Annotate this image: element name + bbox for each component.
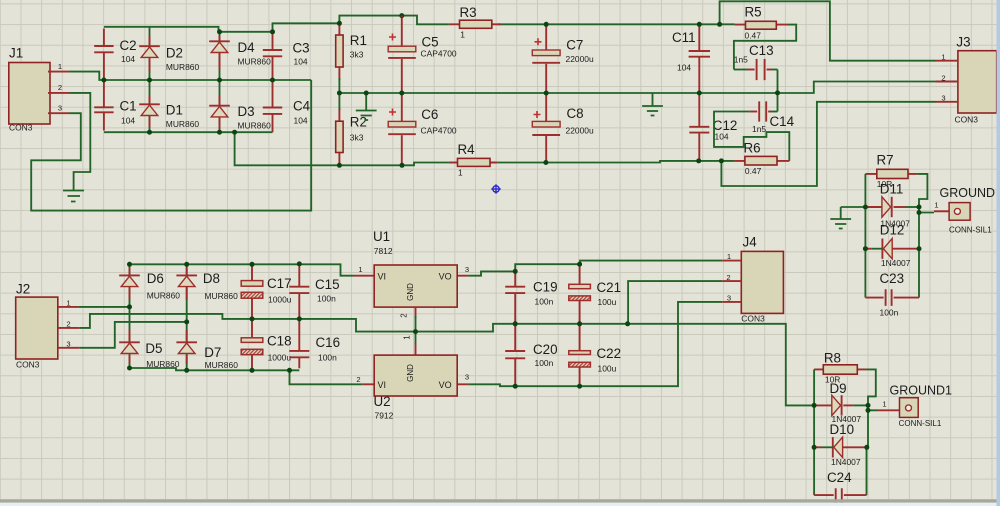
wire J1 pin3 loop to mid node rail (31, 80, 311, 211)
ground at C7/C8 mid rail (652, 93, 654, 106)
svg-text:J1: J1 (9, 46, 23, 61)
wire D9-D10 left vertical (813, 405, 815, 447)
capacitor C24 (813, 447, 815, 495)
svg-text:R3: R3 (460, 5, 477, 20)
svg-text:D1: D1 (166, 103, 183, 118)
svg-text:MUR860: MUR860 (238, 57, 272, 67)
svg-text:C20: C20 (533, 342, 558, 357)
svg-text:C4: C4 (293, 99, 311, 114)
capacitor C16 (298, 321, 300, 351)
terminal GROUND1 (878, 409, 900, 411)
wire J1 pin2 to ground (70, 93, 90, 190)
wire R7 right down to D11 cathode (918, 174, 928, 207)
origin marker (491, 184, 501, 194)
wire D11-D12 left vertical (864, 207, 866, 249)
wire J2 pin1 to D6/D5 node (78, 306, 129, 308)
regulator U1 7812 (353, 275, 468, 277)
capacitor C5 (389, 34, 396, 41)
svg-text:MUR860: MUR860 (238, 121, 272, 131)
svg-text:J2: J2 (16, 281, 30, 296)
diode D9 (814, 404, 832, 406)
diode D1 (149, 80, 151, 132)
resistor R7 (865, 173, 918, 175)
pin 2 of J3 (936, 81, 958, 83)
svg-text:3: 3 (58, 104, 62, 113)
svg-text:R4: R4 (458, 142, 476, 157)
svg-text:3: 3 (727, 294, 731, 303)
svg-text:C21: C21 (597, 280, 622, 295)
svg-text:2: 2 (356, 375, 360, 384)
svg-text:1N4007: 1N4007 (881, 258, 911, 268)
wire D9-D10 right vertical (867, 410, 869, 447)
svg-text:C23: C23 (880, 271, 905, 286)
connector J2 (16, 297, 58, 359)
wire J4 pin2 from mid rail (628, 281, 722, 324)
svg-text:100n: 100n (318, 352, 337, 362)
ground at R2 node (365, 93, 367, 111)
wire branch to U2 VI (290, 370, 363, 384)
diode D5 (129, 307, 131, 368)
capacitor C7 (535, 38, 542, 45)
svg-text:R6: R6 (744, 140, 761, 155)
junction dots R8 block (812, 403, 817, 408)
wire D11 cathode to GROUND terminal (919, 207, 934, 213)
svg-text:22000u: 22000u (566, 54, 594, 64)
svg-text:100u: 100u (598, 363, 617, 373)
svg-text:104: 104 (294, 56, 308, 66)
pin 3 of J3 (936, 101, 958, 103)
svg-text:1: 1 (358, 265, 362, 274)
wire R7 left down to D11 (864, 174, 866, 207)
wire R8 left down to D9 (813, 369, 815, 405)
capacitor C8 (534, 111, 541, 118)
resistor R4 (449, 162, 497, 164)
svg-text:MUR860: MUR860 (205, 291, 239, 301)
svg-text:1: 1 (66, 299, 70, 308)
svg-text:3: 3 (465, 373, 469, 382)
svg-text:R1: R1 (350, 33, 367, 48)
svg-text:CAP4700: CAP4700 (421, 125, 457, 135)
svg-text:C16: C16 (316, 335, 341, 350)
svg-text:R7: R7 (877, 152, 894, 167)
svg-text:100n: 100n (535, 358, 554, 368)
svg-text:1n5: 1n5 (734, 55, 748, 65)
svg-text:7912: 7912 (375, 410, 394, 420)
svg-text:C7: C7 (566, 37, 583, 52)
wire C14 left loop to R6 right (714, 112, 789, 161)
svg-text:C18: C18 (267, 333, 292, 348)
diode D2 (149, 27, 151, 80)
svg-text:VI: VI (378, 380, 387, 390)
diode D12 (865, 248, 871, 250)
svg-text:D6: D6 (147, 271, 164, 286)
capacitor C11 (698, 26, 700, 51)
svg-text:R2: R2 (350, 115, 367, 130)
svg-text:1: 1 (458, 168, 463, 178)
capacitor C14 (749, 111, 757, 113)
svg-text:1000u: 1000u (268, 353, 292, 363)
resistor R6 (734, 160, 789, 162)
wire J2 pin3 to D8/D7 node (79, 322, 187, 348)
pin 2 of J1 (48, 92, 70, 94)
svg-text:MUR860: MUR860 (146, 359, 180, 369)
resistor R3 (449, 23, 501, 25)
wire mid rail (R1-R2/C5/C7/C11 mid, to J3 pin 2) (339, 82, 936, 94)
capacitor C1 (103, 82, 105, 107)
junction dots bottom section (127, 262, 132, 267)
wire to J3 pin 1 (720, 1, 936, 60)
pin 1 of J1 (48, 71, 70, 73)
diode D4 (219, 32, 221, 80)
svg-text:C1: C1 (120, 99, 137, 114)
svg-text:D2: D2 (166, 46, 183, 61)
svg-text:3: 3 (465, 265, 469, 274)
capacitor C15 (298, 266, 300, 287)
svg-text:0.47: 0.47 (745, 166, 762, 176)
svg-text:D4: D4 (238, 40, 256, 55)
ground under J1 (63, 191, 84, 202)
svg-text:0.47: 0.47 (745, 30, 762, 40)
svg-text:1: 1 (934, 200, 938, 209)
svg-text:R8: R8 (824, 351, 841, 366)
junction dots R7 block (863, 205, 868, 210)
svg-text:CAP4700: CAP4700 (421, 48, 457, 58)
svg-text:1: 1 (403, 335, 412, 340)
wire R3 right to C7/C11/R5 (497, 23, 734, 25)
svg-text:2: 2 (726, 273, 730, 282)
svg-text:CON3: CON3 (16, 359, 40, 369)
svg-text:U1: U1 (373, 229, 390, 244)
pin 3 of J2 (58, 347, 79, 349)
svg-text:C15: C15 (315, 277, 340, 292)
svg-text:GROUND: GROUND (940, 186, 996, 200)
svg-text:1000u: 1000u (268, 294, 292, 304)
svg-text:1N4007: 1N4007 (831, 457, 861, 467)
svg-text:1: 1 (460, 29, 465, 39)
svg-text:D8: D8 (203, 271, 220, 286)
svg-text:D11: D11 (880, 181, 904, 196)
svg-text:2: 2 (58, 83, 62, 92)
svg-text:MUR860: MUR860 (166, 62, 200, 72)
svg-text:C11: C11 (672, 30, 696, 45)
svg-text:104: 104 (677, 63, 691, 73)
svg-text:GND: GND (406, 283, 415, 301)
svg-text:C2: C2 (120, 38, 137, 53)
svg-text:C8: C8 (567, 106, 584, 121)
svg-text:C13: C13 (749, 43, 774, 58)
svg-text:VO: VO (439, 380, 452, 390)
svg-text:D3: D3 (238, 104, 255, 119)
svg-text:C22: C22 (597, 346, 622, 361)
svg-text:J3: J3 (956, 35, 970, 50)
capacitor C17 (251, 266, 253, 281)
svg-text:MUR860: MUR860 (205, 360, 239, 370)
diode D11 (865, 206, 882, 208)
capacitor C23 (864, 249, 866, 298)
capacitor C6 (389, 109, 396, 116)
svg-text:CON3: CON3 (741, 314, 765, 324)
capacitor C3 (272, 34, 274, 51)
wire 0V mid rail (J2 pin2 net) (79, 314, 814, 406)
regulator U2 7912 (363, 383, 468, 385)
pin 2 of J2 (58, 327, 79, 329)
capacitor C12 (698, 95, 700, 127)
wire C13/C14 right to mid rail (777, 70, 779, 112)
svg-text:CONN-SIL1: CONN-SIL1 (899, 419, 942, 428)
svg-text:2: 2 (941, 73, 945, 82)
wire J3 pin3 link from R6 rail (721, 102, 936, 186)
diode D3 (219, 80, 221, 132)
wire R8 right down to D9 cathode (867, 369, 876, 405)
svg-text:D7: D7 (204, 345, 221, 360)
regulator U1 ground pin wire (415, 307, 417, 318)
pin 3 of J4 (722, 301, 741, 303)
svg-text:1: 1 (58, 62, 62, 71)
diode D8 (186, 264, 188, 322)
svg-text:D5: D5 (145, 341, 162, 356)
wire top rail to R1/C5/R3 (273, 16, 449, 32)
capacitor C20 (514, 326, 516, 352)
svg-text:MUR860: MUR860 (166, 119, 200, 129)
svg-text:C3: C3 (293, 40, 310, 55)
wire top rail left (C2/D2/D4/C3 tops) (104, 27, 273, 32)
svg-text:CON3: CON3 (9, 123, 33, 133)
svg-text:1: 1 (727, 252, 731, 261)
wire J1 pin1 to mid node rail (70, 72, 311, 80)
svg-text:U2: U2 (374, 394, 391, 409)
capacitor C5 top wire dot stub (401, 16, 403, 17)
svg-text:D9: D9 (830, 381, 847, 396)
capacitor C19 (514, 273, 516, 287)
capacitor C22 (579, 326, 581, 351)
svg-text:3: 3 (941, 94, 945, 103)
svg-text:1: 1 (941, 53, 945, 62)
svg-text:3k3: 3k3 (350, 50, 364, 60)
svg-text:7812: 7812 (374, 246, 393, 256)
wire bottom rail (D5/D7/C18/C16) (130, 368, 300, 370)
wire top rail bottom section (D6/D8/C17/C15 to U1 VI) (130, 264, 354, 275)
svg-text:104: 104 (715, 131, 729, 141)
diode D10 (814, 446, 822, 448)
svg-text:3: 3 (66, 340, 70, 349)
svg-text:GROUND1: GROUND1 (890, 383, 953, 397)
resistor R5 (735, 24, 787, 26)
wire C1/D1/D3 bottom rail (104, 131, 273, 133)
svg-text:C6: C6 (421, 107, 438, 122)
svg-text:1n5: 1n5 (752, 124, 766, 134)
svg-text:3k3: 3k3 (350, 133, 364, 143)
svg-text:104: 104 (121, 54, 135, 64)
terminal GROUND (934, 210, 949, 212)
svg-text:C14: C14 (770, 114, 795, 129)
svg-text:100n: 100n (535, 296, 554, 306)
diode D6 (129, 264, 131, 307)
pin 1 of J3 (936, 60, 958, 62)
connector J3 (958, 51, 997, 113)
capacitor C13 (734, 69, 748, 71)
svg-text:CONN-SIL1: CONN-SIL1 (949, 225, 992, 234)
svg-text:C5: C5 (422, 35, 439, 50)
svg-text:100u: 100u (598, 297, 617, 307)
svg-text:104: 104 (121, 116, 135, 126)
wire D9 to GROUND1 terminal (868, 405, 878, 410)
svg-text:D12: D12 (880, 222, 905, 237)
svg-text:100n: 100n (880, 308, 899, 318)
wire U1 VO to C19/C21 and J4 pin1 (468, 261, 722, 276)
svg-text:2: 2 (400, 313, 409, 318)
svg-text:D10: D10 (830, 422, 855, 437)
pin 1 of J2 (58, 306, 79, 308)
svg-text:100n: 100n (317, 293, 336, 303)
svg-text:J4: J4 (743, 235, 758, 250)
svg-text:22000u: 22000u (566, 125, 594, 135)
capacitor C2 (103, 29, 105, 47)
wire D11-D12 right vertical (918, 213, 920, 249)
svg-text:C24: C24 (827, 470, 852, 485)
svg-text:R5: R5 (745, 5, 762, 20)
resistor R2 (338, 108, 340, 163)
svg-text:CON3: CON3 (955, 114, 979, 124)
svg-text:GND: GND (406, 364, 415, 382)
connector J4 (741, 251, 783, 313)
ground at D11 anode (841, 206, 866, 208)
resistor R1 (338, 25, 340, 80)
svg-text:1: 1 (882, 399, 886, 408)
capacitor C21 (579, 266, 581, 285)
wire R5 right loop to C13 (734, 25, 796, 70)
wire U2 VO rail to C20/C22 and J4 pin3 (468, 302, 722, 386)
pin 2 of J4 (722, 280, 741, 282)
svg-text:104: 104 (294, 115, 308, 125)
capacitor C18 (251, 321, 253, 338)
pin 3 of J1 (48, 112, 70, 114)
diode D7 (186, 322, 188, 370)
resistor R8 (814, 368, 866, 370)
junction dots top section (217, 29, 222, 34)
capacitor C4 (272, 82, 274, 108)
svg-text:2: 2 (66, 320, 70, 329)
pin 1 of J4 (722, 260, 741, 262)
svg-text:MUR860: MUR860 (147, 290, 181, 300)
wire bottom rail (R2/C6/C8/C12 bottom to R6) (235, 132, 735, 165)
svg-text:VI: VI (378, 272, 387, 282)
connector J1 (9, 63, 50, 125)
svg-text:C19: C19 (533, 280, 558, 295)
svg-text:VO: VO (439, 272, 452, 282)
svg-text:C17: C17 (267, 276, 292, 291)
